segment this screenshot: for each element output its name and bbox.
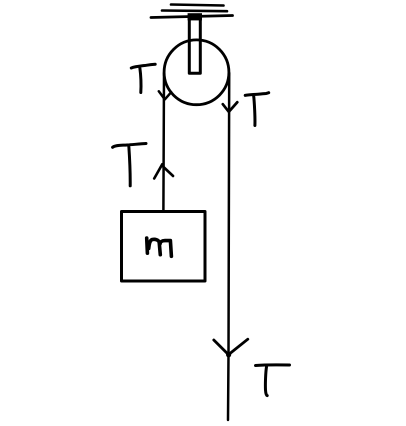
label T middle left (above box) (113, 144, 146, 186)
label T left of pulley (131, 64, 155, 92)
arrow down at bottom of right rope (214, 339, 248, 354)
pulley circle (164, 40, 229, 105)
arrow down on right rope near pulley (223, 102, 238, 112)
wire right rope (pulley to bottom) (228, 73, 229, 420)
label T bottom right (256, 365, 290, 396)
ceiling line top (171, 5, 224, 6)
arrow down on left rope near pulley (159, 91, 171, 99)
box mass m (122, 212, 206, 282)
wire left rope (pulley to box) (162, 73, 165, 211)
bracket (pulley support) (189, 15, 200, 73)
ceiling line middle (162, 9, 227, 12)
arrow up on left rope above box (154, 164, 173, 178)
label T right of pulley (245, 93, 269, 126)
bracket thick top edge (188, 13, 202, 20)
ceiling line main (151, 16, 233, 18)
label m inside box (147, 238, 172, 256)
dot at bottom arrow tip (226, 352, 231, 357)
